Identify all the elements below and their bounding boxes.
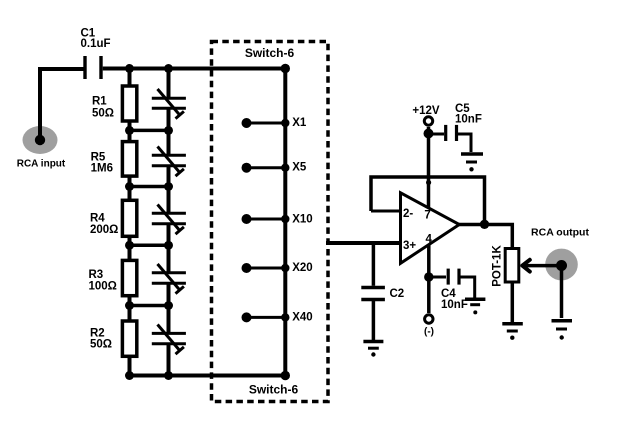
RCA input jack center pin xyxy=(35,135,45,145)
node: top rail / trimmer column xyxy=(164,64,173,73)
wire: rung 4 (R3/R2 junction) xyxy=(130,304,169,308)
svg-text:X10: X10 xyxy=(292,213,312,225)
svg-text:X1: X1 xyxy=(292,117,307,129)
RCA output jack center pin xyxy=(556,260,567,271)
wire: rung 3 (R4/R3 junction) xyxy=(130,244,169,248)
svg-text:200Ω: 200Ω xyxy=(90,224,118,236)
node X10 left xyxy=(242,214,252,224)
svg-text:100Ω: 100Ω xyxy=(89,280,117,292)
wire: pin4 junction to minus terminal xyxy=(427,277,431,313)
node X10 pole xyxy=(281,215,289,223)
node rung2 left xyxy=(125,182,134,191)
trimmer capacitor VC1 xyxy=(152,89,186,119)
wire: C2 to ground xyxy=(372,301,376,340)
node rung3 left xyxy=(125,241,134,250)
svg-text:1M6: 1M6 xyxy=(91,163,113,175)
svg-text:R2: R2 xyxy=(90,327,105,339)
wire: bottom rail xyxy=(130,374,286,378)
node: +12V junction xyxy=(424,129,434,139)
power terminal +12V xyxy=(424,117,432,125)
node: bottom rail / trimmer column xyxy=(164,371,173,380)
capacitor C4 xyxy=(448,269,459,285)
wire: RCA input up to C1 left plate xyxy=(40,69,84,140)
ground (pot) xyxy=(502,324,523,340)
node rung1 right xyxy=(164,126,173,135)
wire: rung 1 (R1/R5 junction) xyxy=(130,129,169,133)
svg-text:R1: R1 xyxy=(92,96,107,108)
wire: rung 2 (R5/R4 junction) xyxy=(130,185,169,189)
resistor R2 xyxy=(122,321,136,356)
RCA output jack body xyxy=(545,249,578,281)
node X20 pole xyxy=(281,264,289,272)
terminal (-) xyxy=(425,315,433,323)
svg-text:4: 4 xyxy=(426,233,433,245)
wire: switch pole column xyxy=(283,69,287,376)
svg-text:R4: R4 xyxy=(90,212,105,224)
wire: top rail xyxy=(103,67,286,71)
wire: trimmer column segments xyxy=(167,69,171,376)
wire: C2 branch down xyxy=(372,243,376,286)
wire: pin4 junction to C4 xyxy=(429,276,446,279)
svg-text:+12V: +12V xyxy=(412,105,440,117)
node: output junction xyxy=(480,220,489,229)
node X5 left xyxy=(242,163,252,173)
node: small dot below feedback crossing xyxy=(426,180,431,185)
capacitor C1 xyxy=(85,56,101,79)
node rung4 left xyxy=(125,301,134,310)
ground (C5) xyxy=(461,154,483,172)
svg-text:X20: X20 xyxy=(292,262,312,274)
resistor R4 xyxy=(122,200,136,236)
switch tap X10 wire xyxy=(247,218,286,221)
switch tap X20 wire xyxy=(247,267,286,270)
switch tap X5 wire xyxy=(247,166,286,169)
trimmer capacitor VC4 xyxy=(152,264,186,294)
node X40 left xyxy=(242,312,252,322)
wire: op-amp output to pot xyxy=(458,225,512,249)
svg-text:Switch-6: Switch-6 xyxy=(245,46,295,60)
capacitor C2 xyxy=(361,288,385,300)
node rung1 left xyxy=(125,126,134,135)
node rung4 right xyxy=(164,301,173,310)
trimmer capacitor VC2 xyxy=(152,147,186,177)
node X1 pole xyxy=(281,119,289,127)
svg-text:0.1uF: 0.1uF xyxy=(81,38,111,50)
node: top rail / switch pole xyxy=(281,64,290,73)
svg-text:3+: 3+ xyxy=(403,240,416,252)
node: pin 4 junction xyxy=(424,272,433,281)
node X5 pole xyxy=(281,164,289,172)
ground (RCA output) xyxy=(552,321,573,340)
resistor R3 xyxy=(122,260,136,295)
switch tap X1 wire xyxy=(247,122,286,125)
wire: V+ down to pin 7 xyxy=(427,127,431,209)
svg-text:C2: C2 xyxy=(390,288,405,300)
svg-text:10nF: 10nF xyxy=(455,114,482,126)
capacitor C5 xyxy=(446,125,457,141)
svg-text:Switch-6: Switch-6 xyxy=(249,383,299,397)
wire: C4 to ground xyxy=(461,277,475,298)
wire: RCA output to ground xyxy=(560,268,564,318)
wire: junction to C5 xyxy=(429,133,445,136)
potentiometer POT-1K body xyxy=(505,249,519,283)
svg-text:50Ω: 50Ω xyxy=(90,339,112,351)
node: bottom rail / switch pole xyxy=(281,371,290,380)
node rung2 right xyxy=(164,182,173,191)
svg-text:POT-1K: POT-1K xyxy=(492,245,504,287)
wire: inverting input 2- xyxy=(371,210,401,213)
RCA input jack xyxy=(23,126,58,154)
svg-text:10nF: 10nF xyxy=(441,299,468,311)
node X20 left xyxy=(242,263,252,273)
wire: pot to ground xyxy=(511,284,515,323)
svg-text:RCA input: RCA input xyxy=(17,159,66,170)
node X1 left xyxy=(242,118,252,128)
node X40 pole xyxy=(281,313,289,321)
ground (C2) xyxy=(363,342,383,357)
wire: C5 to ground xyxy=(458,134,471,152)
switch tap X40 wire xyxy=(247,316,286,319)
svg-text:(-): (-) xyxy=(424,327,434,338)
pot wiper arrow xyxy=(522,260,561,272)
op-amp U1 xyxy=(401,193,460,263)
svg-text:2-: 2- xyxy=(403,208,413,220)
node: top rail / resistor column xyxy=(125,64,134,73)
svg-text:R5: R5 xyxy=(91,151,106,163)
switch box (dashed) xyxy=(212,42,329,402)
svg-text:50Ω: 50Ω xyxy=(92,108,114,120)
trimmer capacitor VC3 xyxy=(152,205,186,235)
ground (C4) xyxy=(465,299,485,314)
trimmer capacitor VC5 xyxy=(152,325,186,355)
resistor R5 xyxy=(122,142,136,177)
svg-text:7: 7 xyxy=(424,210,430,222)
resistor R1 xyxy=(122,86,136,121)
node: bottom rail / resistor column xyxy=(125,371,134,380)
wire: pin 4 down xyxy=(427,245,431,277)
wire: feedback loop xyxy=(371,177,485,225)
svg-text:X5: X5 xyxy=(292,161,307,173)
svg-text:R3: R3 xyxy=(89,269,104,281)
svg-text:X40: X40 xyxy=(292,311,312,323)
svg-text:RCA output: RCA output xyxy=(531,227,589,239)
wire: switch output to op-amp 3+ input xyxy=(326,241,401,245)
wire: resistor column xyxy=(128,69,132,376)
node rung3 right xyxy=(164,241,173,250)
